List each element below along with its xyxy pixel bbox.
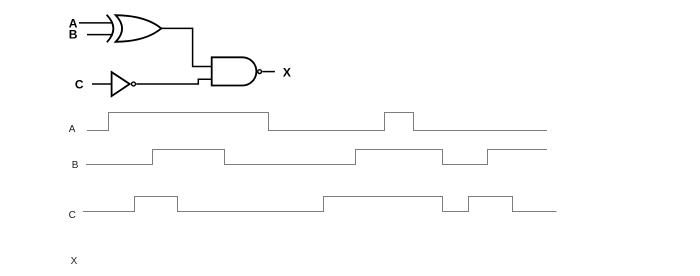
- svg-text:C: C: [69, 210, 76, 221]
- svg-text:C: C: [75, 78, 84, 92]
- svg-text:X: X: [283, 66, 291, 80]
- svg-text:A: A: [69, 124, 76, 135]
- svg-text:X: X: [71, 256, 78, 267]
- svg-text:B: B: [72, 160, 79, 171]
- svg-text:B: B: [69, 28, 78, 42]
